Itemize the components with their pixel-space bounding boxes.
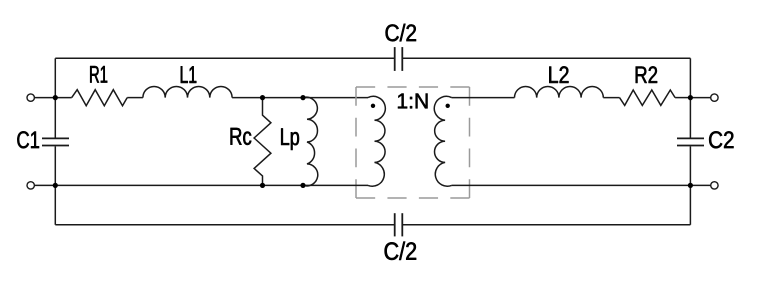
junction node A top xyxy=(260,95,265,100)
transformer secondary winding xyxy=(434,96,451,186)
inductor Lp xyxy=(304,97,318,186)
transformer dashed enclosure xyxy=(356,87,470,198)
inductor L2 xyxy=(515,86,604,97)
polarity dot (secondary) xyxy=(446,104,450,108)
resistor R2 xyxy=(620,90,676,105)
label C1 xyxy=(17,131,39,148)
wire node A to node B xyxy=(263,97,304,99)
capacitor C2 xyxy=(677,138,704,145)
wire output top lead xyxy=(690,97,710,99)
wire R2 to output node xyxy=(675,97,690,99)
label Lp xyxy=(281,128,299,150)
wire R1 to L1 xyxy=(127,97,143,99)
wire right vertical upper xyxy=(689,58,691,137)
label L1 xyxy=(181,66,197,83)
junction node B top xyxy=(300,95,305,100)
resistor Rc xyxy=(254,98,271,186)
inductor L1 xyxy=(143,86,232,97)
wire L1 to node A xyxy=(232,97,262,99)
terminal (output top) xyxy=(711,94,718,101)
wire right vertical lower xyxy=(689,146,691,224)
label C2 xyxy=(709,131,733,148)
wire left vertical lower xyxy=(54,146,56,224)
junction node A bottom xyxy=(260,183,265,188)
label 1:N xyxy=(398,94,427,109)
wire input top lead xyxy=(35,97,56,99)
wire outer bottom rail left segment xyxy=(55,224,394,226)
label L2 xyxy=(549,66,568,83)
terminal (input bottom) xyxy=(27,182,34,189)
capacitor C1 xyxy=(42,138,69,145)
junction node B bottom xyxy=(300,183,305,188)
wire outer top rail right segment xyxy=(402,57,690,59)
junction node (output top) xyxy=(688,95,693,100)
capacitor C/2 (bottom) xyxy=(395,213,403,236)
capacitor C/2 (top) xyxy=(395,47,403,71)
wire bottom rail left xyxy=(55,184,368,186)
label C/2 (bottom) xyxy=(385,242,417,260)
label R2 xyxy=(636,66,657,83)
wire input bottom lead xyxy=(35,184,56,186)
resistor R1 xyxy=(72,90,128,106)
wire bottom rail right xyxy=(452,184,691,186)
wire transformer secondary to L2 xyxy=(452,97,515,99)
wire outer top rail left segment xyxy=(55,57,394,59)
terminal (input top) xyxy=(27,94,34,101)
label Rc xyxy=(231,128,252,145)
wire left vertical upper (node to outer top) xyxy=(54,58,56,137)
wire node B to transformer primary xyxy=(303,97,368,99)
polarity dot (primary) xyxy=(371,104,375,108)
junction node (input top) xyxy=(53,95,58,100)
wire output bottom lead xyxy=(690,184,710,186)
transformer primary winding xyxy=(368,96,385,186)
wire L2 to R2 xyxy=(603,97,619,99)
junction node (output bottom) xyxy=(688,183,693,188)
wire outer bottom rail right segment xyxy=(402,224,690,226)
junction node (input bottom) xyxy=(53,183,58,188)
label C/2 (top) xyxy=(386,24,416,42)
terminal (output bottom) xyxy=(711,182,718,189)
label R1 xyxy=(90,66,107,83)
wire node to R1 xyxy=(55,97,71,99)
